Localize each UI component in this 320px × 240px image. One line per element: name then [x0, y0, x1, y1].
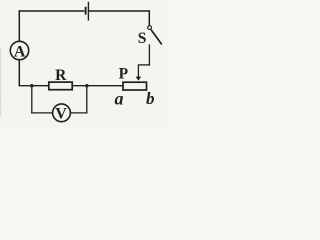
scan noise overlay	[0, 0, 1, 1]
switch S1 pivot circle	[148, 26, 152, 30]
wire wiper to right corner	[138, 64, 150, 66]
ammeter A1 circle	[10, 41, 28, 59]
wire junction down to voltmeter	[31, 86, 33, 114]
voltmeter V1 circle	[53, 104, 71, 122]
node junction dot left (voltmeter tap)	[30, 84, 33, 87]
wire lower-left horizontal to resistor	[19, 85, 50, 87]
switch S1 blade (open)	[151, 30, 162, 45]
potentiometer wiper arrow stem	[137, 64, 139, 77]
resistor R1 box	[49, 82, 72, 90]
battery B1 long plate (positive)	[87, 2, 89, 21]
potentiometer P1 box	[123, 82, 147, 90]
wire top-right horizontal	[89, 10, 150, 12]
scan edge smudge left	[0, 48, 2, 116]
node junction dot right	[85, 84, 88, 87]
wire voltmeter left horizontal	[31, 112, 53, 114]
wire up from voltmeter to junction	[86, 86, 88, 114]
battery B1 short plate (negative)	[85, 7, 87, 15]
wire left vertical (corner to ammeter)	[18, 10, 20, 41]
potentiometer wiper arrowhead	[136, 77, 142, 81]
wire voltmeter right horizontal	[71, 112, 88, 114]
wire ammeter to lower-left corner	[18, 60, 20, 87]
wire right corner up to switch	[148, 44, 150, 65]
wire resistor to potentiometer	[73, 85, 123, 87]
wire top-left horizontal	[19, 10, 85, 12]
wire top-right vertical to switch pivot	[148, 10, 150, 25]
